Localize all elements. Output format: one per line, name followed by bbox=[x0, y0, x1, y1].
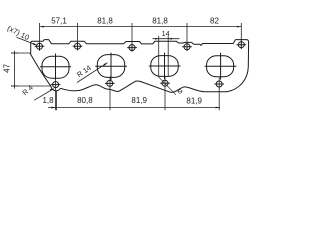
leader small dia bbox=[157, 75, 176, 94]
47 dim line bbox=[14, 51, 16, 89]
port 4 bbox=[207, 56, 234, 77]
svg-text:14: 14 bbox=[162, 29, 170, 38]
bolt hole bottom 3 bbox=[162, 80, 168, 86]
svg-text:81,9: 81,9 bbox=[131, 96, 147, 105]
top dimension line bbox=[40, 26, 242, 28]
svg-text:81,9: 81,9 bbox=[186, 96, 202, 105]
svg-text:81,8: 81,8 bbox=[97, 16, 113, 25]
port 1 bbox=[42, 56, 69, 78]
port 3 centerlines bbox=[149, 53, 181, 80]
svg-text:1,8: 1,8 bbox=[42, 96, 54, 105]
svg-text:80,8: 80,8 bbox=[77, 96, 93, 105]
port 4 centerlines bbox=[205, 53, 237, 80]
svg-text:47: 47 bbox=[3, 63, 12, 72]
bolt hole bottom 2 bbox=[107, 80, 113, 86]
47 ticks bbox=[11, 52, 18, 54]
bolt hole top 2 bbox=[75, 43, 81, 49]
leader R 14 bbox=[77, 63, 108, 83]
bottom dimension line bbox=[48, 107, 220, 109]
port 2 centerlines bbox=[95, 53, 127, 80]
bottom ticks / extension lines bbox=[54, 77, 56, 110]
port 1 centerlines bbox=[40, 54, 71, 80]
top ticks + extension lines down to holes bbox=[39, 23, 41, 43]
bottom right end arrow bbox=[216, 107, 220, 109]
bolt hole top 1 bbox=[37, 43, 43, 49]
port 2 bbox=[97, 55, 124, 78]
bolt hole bottom 1 bbox=[53, 82, 59, 88]
14 dim line bbox=[153, 38, 180, 40]
bolt hole top 4 bbox=[184, 44, 190, 50]
bolt hole top 5 (right lobe) bbox=[238, 42, 244, 48]
14 extension lines bbox=[158, 36, 160, 76]
dimension lines bbox=[11, 23, 241, 110]
bottom left arrow bbox=[51, 107, 55, 109]
bolt hole top 3 bbox=[129, 45, 135, 51]
47 extension lines bbox=[11, 52, 30, 54]
svg-text:57,1: 57,1 bbox=[51, 16, 67, 25]
gasket plate outline bbox=[30, 40, 248, 93]
leader (x7)10 bbox=[17, 37, 37, 45]
leader R 4 bbox=[34, 89, 54, 101]
svg-text:81,8: 81,8 bbox=[152, 16, 168, 25]
bolt hole bottom 4 bbox=[216, 81, 222, 87]
14 arrows bbox=[155, 38, 159, 40]
port 3 bbox=[151, 56, 178, 77]
svg-text:82: 82 bbox=[210, 16, 219, 25]
